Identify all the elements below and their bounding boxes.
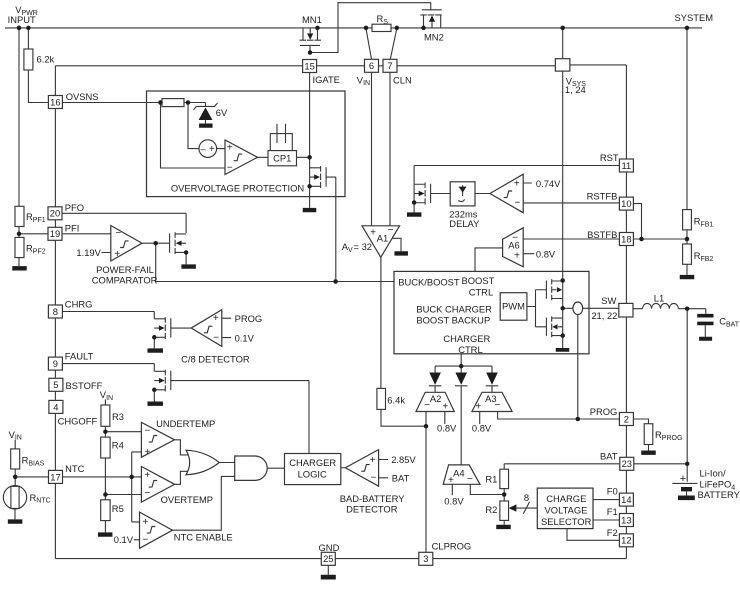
svg-text:6.4k: 6.4k xyxy=(387,394,405,405)
svg-text:OVERTEMP: OVERTEMP xyxy=(161,494,213,505)
svg-text:PWM: PWM xyxy=(502,301,525,312)
svg-text:CLPROG: CLPROG xyxy=(432,541,472,552)
svg-text:−: − xyxy=(115,228,121,239)
svg-text:−: − xyxy=(494,400,500,411)
svg-text:+: + xyxy=(442,401,448,412)
svg-text:+: + xyxy=(142,517,148,528)
svg-text:CHARGER: CHARGER xyxy=(289,457,336,468)
svg-text:−: − xyxy=(144,488,150,499)
svg-text:+: + xyxy=(514,250,520,261)
svg-text:CHARGE: CHARGE xyxy=(546,493,586,504)
svg-text:CLN: CLN xyxy=(393,74,412,85)
svg-text:CHRG: CHRG xyxy=(65,298,93,309)
svg-text:DETECTOR: DETECTOR xyxy=(346,503,398,514)
svg-text:−: − xyxy=(514,198,520,209)
svg-text:−: − xyxy=(227,163,233,174)
svg-text:6.2k: 6.2k xyxy=(37,54,55,65)
svg-text:UNDERTEMP: UNDERTEMP xyxy=(156,418,215,429)
svg-text:0.74V: 0.74V xyxy=(536,178,561,189)
svg-text:INPUT: INPUT xyxy=(8,14,36,25)
svg-text:16: 16 xyxy=(50,96,60,107)
svg-text:SYSTEM: SYSTEM xyxy=(675,12,714,23)
svg-text:2.85V: 2.85V xyxy=(391,454,416,465)
svg-text:OVERVOLTAGE PROTECTION: OVERVOLTAGE PROTECTION xyxy=(171,182,304,193)
svg-text:OVSNS: OVSNS xyxy=(66,91,99,102)
svg-text:+: + xyxy=(114,249,120,260)
svg-text:8: 8 xyxy=(524,492,529,503)
svg-text:F1: F1 xyxy=(607,506,618,517)
svg-text:+: + xyxy=(370,455,376,466)
svg-text:20: 20 xyxy=(50,208,60,219)
svg-text:−: − xyxy=(142,535,148,546)
svg-text:COMPARATOR: COMPARATOR xyxy=(92,275,158,286)
svg-text:6: 6 xyxy=(369,60,374,71)
svg-text:11: 11 xyxy=(622,160,632,171)
svg-text:R3: R3 xyxy=(112,411,124,422)
svg-text:+: + xyxy=(448,475,454,486)
svg-text:MN2: MN2 xyxy=(424,32,444,43)
svg-text:0.8V: 0.8V xyxy=(536,248,556,259)
svg-text:F2: F2 xyxy=(607,527,618,538)
svg-text:A1: A1 xyxy=(377,232,388,243)
svg-text:SW: SW xyxy=(601,295,616,306)
svg-text:9: 9 xyxy=(53,358,58,369)
svg-text:+: + xyxy=(209,144,215,155)
svg-text:6V: 6V xyxy=(216,107,228,118)
svg-text:1, 24: 1, 24 xyxy=(565,84,586,95)
svg-text:+: + xyxy=(144,447,150,458)
svg-text:BAT: BAT xyxy=(392,473,410,484)
svg-text:VOLTAGE: VOLTAGE xyxy=(545,504,588,515)
svg-text:7: 7 xyxy=(387,60,392,71)
svg-text:5: 5 xyxy=(53,379,58,390)
svg-text:R1: R1 xyxy=(485,474,497,485)
svg-text:NTC ENABLE: NTC ENABLE xyxy=(174,531,233,542)
svg-text:POWER-FAIL: POWER-FAIL xyxy=(96,264,154,275)
svg-text:GND: GND xyxy=(319,542,340,553)
svg-text:CHGOFF: CHGOFF xyxy=(58,416,98,427)
svg-text:RSTFB: RSTFB xyxy=(587,191,618,202)
svg-text:1.19V: 1.19V xyxy=(76,247,101,258)
svg-text:A6: A6 xyxy=(508,240,519,251)
svg-text:C/8 DETECTOR: C/8 DETECTOR xyxy=(181,353,250,364)
svg-text:+: + xyxy=(514,178,520,189)
svg-text:CTRL: CTRL xyxy=(469,286,493,297)
svg-text:−: − xyxy=(388,225,394,236)
svg-text:PFI: PFI xyxy=(65,223,80,234)
svg-text:+: + xyxy=(144,470,150,481)
svg-text:CHARGER: CHARGER xyxy=(443,333,490,344)
svg-text:25: 25 xyxy=(323,553,333,564)
svg-text:0.8V: 0.8V xyxy=(472,423,492,434)
svg-text:0.8V: 0.8V xyxy=(437,423,457,434)
svg-text:−: − xyxy=(467,474,473,485)
svg-text:BSTOFF: BSTOFF xyxy=(66,380,103,391)
svg-text:CP1: CP1 xyxy=(273,152,291,163)
svg-text:L1: L1 xyxy=(654,293,664,304)
svg-text:10: 10 xyxy=(621,198,631,209)
svg-text:BUCK/BOOST: BUCK/BOOST xyxy=(398,276,460,287)
svg-text:15: 15 xyxy=(304,60,314,71)
svg-text:+: + xyxy=(227,143,233,154)
svg-text:MN1: MN1 xyxy=(302,14,322,25)
svg-text:−: − xyxy=(144,425,150,436)
svg-text:4: 4 xyxy=(53,401,58,412)
svg-text:+: + xyxy=(475,401,481,412)
svg-text:Li-Ion/: Li-Ion/ xyxy=(700,468,726,479)
svg-text:BSTFB: BSTFB xyxy=(587,229,617,240)
svg-text:PROG: PROG xyxy=(590,406,618,417)
svg-text:0.8V: 0.8V xyxy=(444,495,464,506)
svg-text:CTRL: CTRL xyxy=(458,344,482,355)
svg-text:LOGIC: LOGIC xyxy=(298,468,327,479)
svg-text:BAT: BAT xyxy=(600,450,618,461)
svg-text:A2: A2 xyxy=(430,393,441,404)
svg-text:NTC: NTC xyxy=(65,463,84,474)
svg-text:12: 12 xyxy=(621,535,631,546)
svg-text:= 32: = 32 xyxy=(354,241,373,252)
svg-text:F0: F0 xyxy=(607,486,618,497)
svg-text:+: + xyxy=(213,313,219,324)
svg-text:14: 14 xyxy=(621,494,631,505)
svg-text:BOOST BACKUP: BOOST BACKUP xyxy=(416,315,490,326)
svg-text:2: 2 xyxy=(624,413,629,424)
svg-text:−: − xyxy=(213,332,219,343)
svg-text:R2: R2 xyxy=(485,504,497,515)
svg-text:R5: R5 xyxy=(112,503,124,514)
svg-text:FAULT: FAULT xyxy=(65,350,94,361)
svg-text:PROG: PROG xyxy=(235,313,263,324)
svg-text:SELECTOR: SELECTOR xyxy=(541,516,592,527)
svg-text:0.1V: 0.1V xyxy=(114,534,134,545)
svg-text:0.1V: 0.1V xyxy=(235,333,255,344)
svg-text:IGATE: IGATE xyxy=(313,74,340,85)
svg-text:18: 18 xyxy=(621,233,631,244)
svg-text:–: – xyxy=(201,144,207,155)
svg-text:DELAY: DELAY xyxy=(449,218,480,229)
svg-text:19: 19 xyxy=(50,228,60,239)
svg-text:BAD-BATTERY: BAD-BATTERY xyxy=(340,493,406,504)
svg-text:21, 22: 21, 22 xyxy=(591,310,617,321)
svg-text:PFO: PFO xyxy=(65,202,84,213)
svg-text:23: 23 xyxy=(622,458,632,469)
svg-text:17: 17 xyxy=(50,471,60,482)
svg-text:8: 8 xyxy=(53,306,58,317)
svg-text:−: − xyxy=(370,472,376,483)
svg-text:BUCK CHARGER: BUCK CHARGER xyxy=(416,303,492,314)
svg-text:3: 3 xyxy=(423,553,428,564)
svg-text:13: 13 xyxy=(621,514,631,525)
svg-text:+: + xyxy=(370,227,376,238)
svg-text:BATTERY: BATTERY xyxy=(698,489,740,500)
svg-text:BOOST: BOOST xyxy=(462,275,495,286)
svg-text:R4: R4 xyxy=(112,439,124,450)
svg-text:A4: A4 xyxy=(453,468,464,479)
svg-text:−: − xyxy=(424,400,430,411)
svg-text:+: + xyxy=(680,473,686,485)
svg-text:RST: RST xyxy=(600,152,619,163)
